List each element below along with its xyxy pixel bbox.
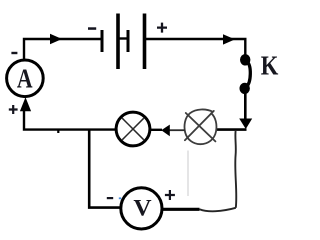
- arrow current direction down into lamp row: [239, 119, 252, 130]
- svg-text:K: K: [261, 50, 279, 80]
- switch K: [240, 54, 251, 94]
- arrow current direction toward lamp L1: [161, 125, 170, 137]
- label - ammeter negative terminal: [11, 52, 17, 54]
- arrow current direction top-left: [50, 34, 62, 44]
- wire between arrow and lamp L2: [169, 129, 185, 131]
- label - voltmeter blue fringe tick: [119, 197, 121, 199]
- voltmeter V1: [121, 188, 162, 229]
- label - voltmeter negative terminal: [107, 197, 113, 199]
- wire hand-drawn horizontal from voltmeter: [200, 208, 236, 211]
- arrow current direction up into ammeter: [20, 97, 31, 111]
- svg-text:A: A: [17, 64, 33, 94]
- wire between lamp L1 and arrow: [151, 129, 162, 131]
- wire branch down to voltmeter: [89, 130, 120, 208]
- label - battery negative: [88, 27, 96, 30]
- wire top-right: battery positive to switch: [146, 39, 245, 55]
- faint erased wire remnant: [187, 151, 189, 197]
- wire right vertical: switch to lamp row: [244, 93, 247, 121]
- wire top-left: ammeter to battery negative: [24, 39, 101, 60]
- wire mid-left: left corner to lamp L1: [24, 110, 116, 130]
- wire mid-right: corner to lamp L2: [217, 128, 247, 131]
- label + battery positive: [157, 23, 167, 33]
- wire voltmeter positive lead: [162, 208, 200, 211]
- lamp L1: [116, 112, 150, 146]
- label + ammeter positive terminal: [9, 105, 18, 114]
- battery B1: [102, 14, 145, 70]
- label + voltmeter positive terminal: [165, 190, 175, 200]
- lamp L2 (hand-drawn): [185, 109, 217, 144]
- junction tick on mid wire: [57, 131, 59, 134]
- svg-text:V: V: [133, 196, 151, 222]
- wire hand-drawn vertical up to lamp row junction: [235, 131, 236, 208]
- arrow current direction top-right: [223, 34, 235, 44]
- ammeter A1: [7, 60, 44, 97]
